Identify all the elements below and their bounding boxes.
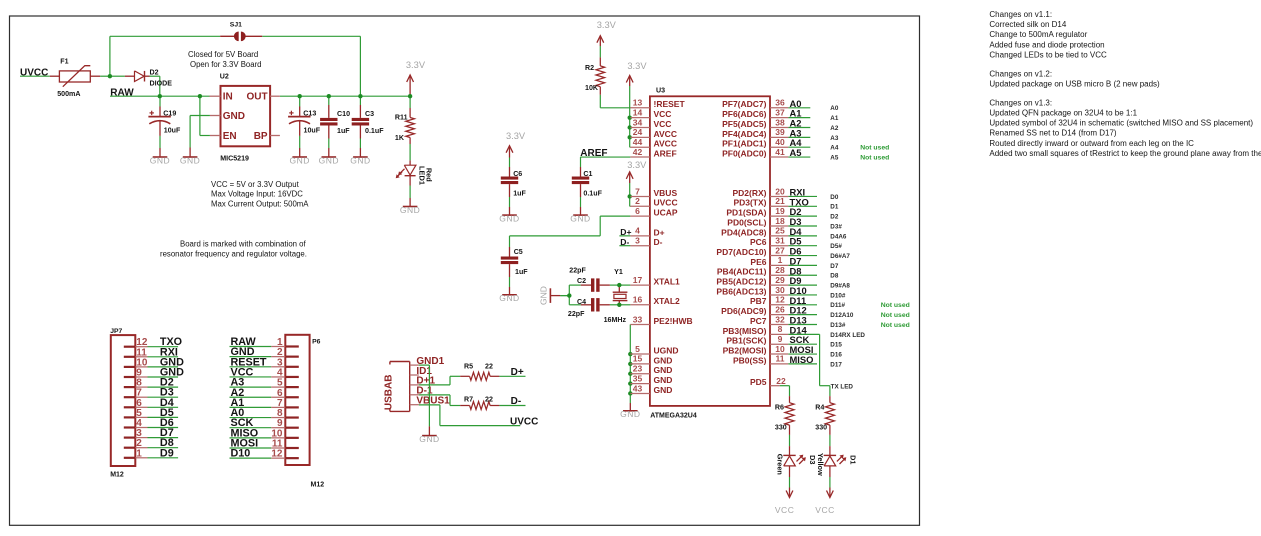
svg-text:10: 10: [775, 344, 785, 354]
svg-text:D-: D-: [511, 396, 522, 407]
svg-text:D15: D15: [830, 342, 842, 349]
resistor R6 330: [775, 396, 794, 435]
ground: [350, 155, 370, 165]
svg-text:Not used: Not used: [881, 322, 910, 329]
junction GND pin row26: [628, 362, 632, 366]
pin 41 PF0(ADC0) net A5 (right): [722, 147, 788, 159]
ground (crystal, rotated): [539, 286, 570, 305]
ground: [499, 293, 519, 303]
pin JP7-7 net D3: [124, 388, 148, 399]
svg-text:BP: BP: [254, 131, 268, 142]
connector X1 USBAB: [384, 356, 450, 412]
svg-text:22: 22: [776, 376, 786, 386]
svg-text:F1: F1: [60, 57, 68, 65]
junction VCC pin34: [628, 125, 632, 129]
svg-text:GND: GND: [620, 409, 640, 419]
wire RXI (JP7): [148, 356, 179, 358]
pin 13 !RESET (left): [630, 98, 685, 110]
wire D4 (JP7): [148, 406, 179, 408]
pin JP7-8 net D2: [124, 378, 148, 389]
wire D3 (JP7): [148, 396, 179, 398]
svg-text:39: 39: [775, 127, 785, 137]
svg-text:Routed directly inward or outw: Routed directly inward or outward from e…: [989, 139, 1194, 148]
wire GND (JP7): [148, 366, 179, 368]
svg-text:GND: GND: [400, 205, 420, 215]
resistor/fuse F1: [50, 57, 100, 98]
svg-text:D5#: D5#: [830, 243, 842, 250]
svg-text:10K: 10K: [585, 84, 599, 92]
svg-text:XTAL1: XTAL1: [654, 277, 681, 287]
svg-text:Not used: Not used: [860, 145, 889, 152]
svg-text:D7: D7: [830, 263, 839, 270]
svg-text:D9#A8: D9#A8: [830, 283, 850, 290]
svg-text:1uF: 1uF: [515, 268, 528, 276]
resistor R4 330: [815, 396, 834, 435]
svg-text:Updated QFN package on 32U4 to: Updated QFN package on 32U4 to be 1:1: [989, 109, 1137, 118]
svg-text:500mA: 500mA: [57, 90, 80, 98]
pin 44 AVCC (left): [630, 137, 677, 149]
svg-text:9: 9: [778, 334, 783, 344]
wire SJ1 left segment: [110, 35, 220, 37]
pin JP7-5 net D5: [124, 408, 148, 419]
wire D9 (JP7): [148, 457, 179, 459]
wire MISO (P6): [230, 437, 272, 439]
svg-text:0.1uF: 0.1uF: [583, 190, 602, 198]
svg-text:13: 13: [633, 98, 643, 108]
svg-text:D2: D2: [150, 68, 159, 76]
svg-text:Board is marked with combinati: Board is marked with combination of: [180, 239, 307, 248]
wire GND (JP7): [148, 376, 179, 378]
wire net SCK: [788, 343, 817, 345]
svg-text:C2: C2: [577, 277, 586, 285]
svg-text:Not used: Not used: [881, 302, 910, 309]
svg-text:43: 43: [633, 383, 643, 393]
svg-text:10uF: 10uF: [164, 127, 181, 135]
svg-text:D10: D10: [231, 448, 251, 460]
svg-text:Corrected silk on D14: Corrected silk on D14: [989, 20, 1066, 29]
svg-text:4: 4: [635, 226, 640, 236]
pin 31 PC6 net D5 (right): [750, 236, 788, 248]
svg-text:20: 20: [775, 186, 785, 196]
wire A3 (P6): [230, 386, 272, 388]
svg-text:R5: R5: [464, 362, 473, 370]
svg-text:Closed for 5V Board: Closed for 5V Board: [188, 50, 258, 59]
wire R2 to !RESET: [599, 95, 601, 108]
svg-text:A0: A0: [830, 105, 839, 112]
svg-text:D0: D0: [830, 194, 839, 201]
wire net RXI: [788, 195, 817, 197]
ground: [570, 213, 590, 223]
ground: [419, 434, 439, 444]
svg-text:PD1(SDA): PD1(SDA): [726, 208, 766, 218]
svg-text:Not used: Not used: [860, 154, 889, 161]
svg-text:TX LED: TX LED: [831, 384, 854, 391]
svg-text:Yellow: Yellow: [816, 453, 825, 476]
pin P6-9 net SCK: [271, 418, 299, 429]
svg-text:M12: M12: [311, 482, 325, 489]
resistor R11 1K: [395, 108, 415, 144]
svg-text:PB0(SS): PB0(SS): [733, 355, 767, 365]
svg-text:Changed LEDs to be tied to VCC: Changed LEDs to be tied to VCC: [989, 50, 1107, 59]
svg-text:24: 24: [633, 127, 643, 137]
pin JP7-6 net D4: [124, 398, 148, 409]
wire UCAP to C5: [600, 215, 630, 217]
wire D5 (JP7): [148, 416, 179, 418]
pin JP7-9 net GND: [124, 368, 148, 379]
svg-text:Red: Red: [424, 168, 433, 182]
svg-text:D8: D8: [830, 273, 839, 280]
svg-text:D13#: D13#: [830, 322, 846, 329]
svg-text:GND: GND: [419, 434, 439, 444]
svg-text:16: 16: [633, 295, 643, 305]
wire net D9: [788, 284, 817, 286]
wire D6 (JP7): [148, 427, 179, 429]
wire net A0: [788, 107, 810, 109]
svg-text:MISO: MISO: [790, 354, 814, 365]
wire 3.3V to R2: [599, 46, 601, 57]
schematic frame border: [10, 16, 920, 525]
wire net A4: [788, 146, 810, 148]
resistor R7 22: [460, 395, 499, 409]
svg-text:Change to 500mA regulator: Change to 500mA regulator: [989, 30, 1087, 39]
wire 3.3V to VBUS/UVCC pins: [629, 183, 631, 206]
svg-text:Max Current Output: 500mA: Max Current Output: 500mA: [211, 199, 309, 208]
svg-text:Max Voltage Input: 16VDC: Max Voltage Input: 16VDC: [211, 190, 303, 199]
svg-text:AVCC: AVCC: [654, 139, 677, 149]
pin P6-11 net MOSI: [271, 439, 299, 450]
ground: [319, 155, 339, 165]
pin 1 PE6 net D7 (right): [750, 255, 788, 267]
wire GND (P6): [230, 356, 272, 358]
capacitor C19 10uF: [148, 96, 181, 136]
svg-text:38: 38: [775, 117, 785, 127]
pin 30 PB6(ADC13) net D10 (right): [716, 285, 788, 297]
svg-text:PB3(MISO): PB3(MISO): [723, 326, 767, 336]
pin D-1: [410, 394, 419, 396]
junction XTAL2/Y1: [617, 303, 621, 307]
svg-text:PD4(ADC8): PD4(ADC8): [721, 227, 767, 237]
svg-text:23: 23: [633, 364, 643, 374]
wire SJ1 down to OUT rail: [359, 36, 361, 96]
svg-text:3: 3: [635, 236, 640, 246]
pin 29 PB5(ADC12) net D9 (right): [716, 275, 788, 287]
wire U2 EN pin to RAW: [200, 135, 210, 137]
svg-text:GND: GND: [570, 213, 590, 223]
wire AREF to pin42: [580, 156, 630, 158]
svg-text:D14RX LED: D14RX LED: [830, 332, 865, 339]
pin 7 VBUS (left): [630, 186, 677, 198]
svg-text:UVCC: UVCC: [510, 417, 538, 428]
junction XTAL1/Y1: [617, 283, 621, 287]
svg-text:UVCC: UVCC: [654, 198, 678, 208]
svg-text:PF1(ADC1): PF1(ADC1): [722, 139, 767, 149]
junction GND pin row27: [628, 372, 632, 376]
svg-text:D6#A7: D6#A7: [830, 253, 850, 260]
pin 40 PF1(ADC1) net A4 (right): [722, 137, 788, 149]
svg-text:PF4(ADC4): PF4(ADC4): [722, 129, 767, 139]
LED LED1 Red: [396, 160, 434, 185]
svg-text:GND: GND: [654, 375, 673, 385]
svg-text:R2: R2: [585, 64, 594, 72]
capacitor C13 10uF: [288, 96, 321, 136]
svg-text:D9: D9: [160, 447, 174, 459]
svg-text:PB4(ADC11): PB4(ADC11): [717, 267, 767, 277]
ground: [180, 155, 200, 165]
svg-text:Updated package on USB micro B: Updated package on USB micro B (2 new pa…: [989, 80, 1160, 89]
wire SCK (P6): [230, 427, 272, 429]
pin 20 PD2(RX) net RXI (right): [732, 186, 788, 198]
svg-text:UGND: UGND: [654, 345, 679, 355]
pin 11 PB0(SS) net MISO (right): [733, 354, 788, 366]
svg-text:VCC: VCC: [654, 109, 672, 119]
svg-text:19: 19: [775, 206, 785, 216]
wire junction to diode anode: [110, 75, 125, 77]
pin 16 XTAL2 (left): [630, 295, 680, 307]
pin JP7-4 net D6: [124, 418, 148, 429]
junction C2/C4/GND: [567, 293, 571, 297]
svg-text:R6: R6: [775, 404, 784, 412]
pin 39 PF4(ADC4) net A3 (right): [722, 127, 788, 139]
pin 3 D- (left): [630, 236, 662, 248]
svg-text:Open for 3.3V Board: Open for 3.3V Board: [190, 60, 262, 69]
wire junction up to SJ1: [109, 36, 111, 76]
wire SJ1 right segment: [262, 35, 360, 37]
svg-text:44: 44: [633, 137, 643, 147]
svg-text:10uF: 10uF: [304, 127, 321, 135]
wire GND1 to ground: [419, 364, 430, 366]
junction GND pin row28: [628, 381, 632, 385]
wire R4 to LED: [829, 435, 831, 446]
svg-text:Added fuse and diode protectio: Added fuse and diode protection: [989, 40, 1104, 49]
svg-text:VCC = 5V or 3.3V Output: VCC = 5V or 3.3V Output: [211, 180, 300, 189]
pin 2 UVCC (left): [630, 196, 677, 208]
svg-text:resonator frequency and regula: resonator frequency and regulator voltag…: [160, 249, 307, 258]
svg-text:GND: GND: [150, 155, 170, 165]
pin JP7-11 net RXI: [124, 347, 148, 358]
ground: [150, 155, 170, 165]
wire XTAL1: [619, 284, 630, 286]
svg-text:IN: IN: [223, 92, 233, 103]
svg-text:D12A10: D12A10: [830, 312, 854, 319]
svg-text:22pF: 22pF: [569, 267, 586, 275]
wire R5 to D+: [499, 375, 525, 377]
svg-text:GND: GND: [319, 155, 339, 165]
pin 8 PB3(MISO) net D14 (right): [723, 324, 789, 336]
wire fuse to junction: [100, 75, 110, 77]
svg-text:PB5(ADC12): PB5(ADC12): [716, 277, 766, 287]
svg-text:R11: R11: [395, 114, 408, 122]
wire net D3: [788, 225, 817, 227]
wire MOSI (P6): [230, 447, 272, 449]
wire D7 (JP7): [148, 437, 179, 439]
svg-text:VCC: VCC: [775, 505, 794, 515]
svg-text:R4: R4: [815, 404, 824, 412]
svg-text:330: 330: [815, 424, 827, 432]
wire net A2: [788, 127, 810, 129]
solder jumper SJ1: [220, 22, 262, 41]
svg-text:PB7: PB7: [750, 296, 767, 306]
svg-text:Renamed SS net to D14 (from D1: Renamed SS net to D14 (from D17): [989, 129, 1117, 138]
svg-text:22pF: 22pF: [568, 310, 585, 318]
svg-text:D4A6: D4A6: [830, 233, 847, 240]
svg-text:11: 11: [776, 354, 785, 364]
pin VBUS1: [410, 404, 419, 406]
pin P6-10 net MISO: [271, 428, 299, 439]
svg-text:D1: D1: [830, 204, 839, 211]
svg-text:1: 1: [778, 255, 783, 265]
wire net MOSI: [788, 353, 817, 355]
svg-text:26: 26: [775, 304, 785, 314]
wire D14 to TX LED: [819, 334, 821, 385]
wire A0 (P6): [230, 417, 272, 419]
svg-text:Y1: Y1: [614, 268, 623, 276]
pin 5 UGND (left): [630, 344, 678, 356]
pin 34 VCC (left): [630, 117, 671, 129]
svg-text:PF0(ADC0): PF0(ADC0): [722, 148, 767, 158]
svg-text:C4: C4: [577, 298, 586, 306]
svg-text:A2: A2: [830, 125, 839, 132]
svg-text:Green: Green: [776, 454, 785, 475]
power VCC: [827, 488, 834, 498]
svg-text:22: 22: [485, 395, 493, 403]
pin 38 PF5(ADC5) net A2 (right): [722, 117, 788, 129]
power 3.3V (VCC pins): [626, 76, 633, 87]
wire net D7: [788, 264, 817, 266]
pin P6-4 net VCC: [271, 367, 299, 378]
svg-text:M12: M12: [110, 472, 124, 479]
capacitor C10 1uF: [320, 96, 350, 138]
pin 27 PD7(ADC10) net D6 (right): [716, 245, 788, 257]
svg-text:1uF: 1uF: [337, 127, 350, 135]
svg-text:41: 41: [775, 147, 785, 157]
svg-text:1uF: 1uF: [513, 190, 526, 198]
svg-text:35: 35: [633, 373, 643, 383]
pin 28 PB4(ADC11) net D8 (right): [717, 265, 788, 277]
wire D8 (JP7): [148, 447, 179, 449]
junction GND pin row25: [628, 352, 632, 356]
wire R11 to LED1: [409, 96, 411, 108]
svg-text:PD0(SCL): PD0(SCL): [727, 217, 766, 227]
svg-text:GND: GND: [290, 155, 310, 165]
pin 4 D+ (left): [630, 226, 664, 238]
note: changelog: [989, 10, 1261, 158]
connector JP7: [110, 328, 135, 478]
svg-text:2: 2: [635, 196, 640, 206]
pin P6-1 net RAW: [271, 337, 299, 348]
svg-text:12: 12: [775, 295, 785, 305]
junction OUT/C3/SJ1: [358, 94, 362, 98]
junction RAW/C19: [158, 94, 162, 98]
svg-text:15: 15: [633, 354, 643, 364]
junction VBUS: [628, 194, 632, 198]
svg-text:7: 7: [635, 186, 640, 196]
connector P6: [285, 335, 324, 489]
svg-text:40: 40: [775, 137, 785, 147]
pin JP7-3 net D7: [124, 428, 148, 439]
pin 32 PC7 net D13 (right): [750, 314, 788, 326]
wire TXO (JP7): [148, 346, 179, 348]
capacitor C3 0.1uF: [352, 96, 384, 138]
diode D2: [125, 68, 172, 87]
wire OUT rail: [280, 95, 410, 97]
svg-text:330: 330: [775, 424, 787, 432]
pin P6-5 net A3: [271, 378, 299, 389]
wire D2 (JP7): [148, 386, 179, 388]
svg-text:PD5: PD5: [750, 377, 767, 387]
svg-text:D+: D+: [511, 367, 524, 378]
wire VCC (P6): [230, 376, 272, 378]
wire LED to VCC: [789, 477, 791, 488]
wire net A1: [788, 117, 810, 119]
svg-text:21: 21: [775, 196, 785, 206]
svg-text:PD6(ADC9): PD6(ADC9): [721, 306, 767, 316]
svg-text:6: 6: [635, 206, 640, 216]
pin P6-6 net A2: [271, 388, 299, 399]
IC U3 ATMEGA32U4: [650, 87, 770, 420]
svg-text:17: 17: [633, 275, 643, 285]
wire diode cathode corner: [150, 75, 160, 77]
svg-text:EN: EN: [223, 131, 237, 142]
svg-text:D11#: D11#: [830, 302, 845, 309]
svg-text:34: 34: [633, 117, 643, 127]
svg-text:D3: D3: [808, 455, 817, 464]
wire C2/C4 left junction: [560, 295, 569, 297]
pin 36 PF7(ADC7) net A0 (right): [722, 98, 788, 110]
pin 22 PD5 (right): [750, 376, 786, 387]
pin 18 PD0(SCL) net D3 (right): [727, 216, 788, 228]
wire net D5: [788, 245, 817, 247]
pin JP7-12 net TXO: [124, 337, 148, 348]
svg-text:PB2(MOSI): PB2(MOSI): [723, 345, 767, 355]
svg-text:UCAP: UCAP: [654, 208, 678, 218]
wire LED to VCC: [829, 477, 831, 488]
svg-text:PD2(RX): PD2(RX): [732, 188, 766, 198]
wire net D6: [788, 255, 817, 257]
svg-text:USBAB: USBAB: [384, 375, 395, 411]
junction OUT/C13: [298, 94, 302, 98]
pin 12 PB7 net D11 (right): [750, 295, 788, 307]
svg-text:GND: GND: [654, 365, 673, 375]
svg-text:RAW: RAW: [110, 87, 134, 98]
wire net TXO: [788, 205, 817, 207]
pin JP7-10 net GND: [124, 357, 148, 368]
pin JP7-1 net D9: [124, 448, 148, 459]
wire net MISO: [788, 363, 817, 365]
pin P6-2 net GND: [271, 347, 299, 358]
svg-text:Changes on v1.2:: Changes on v1.2:: [989, 70, 1052, 79]
svg-text:UVCC: UVCC: [20, 67, 48, 78]
svg-text:3.3V: 3.3V: [627, 61, 647, 71]
regulator U2 MIC5219: [210, 72, 280, 162]
capacitor C6 1uF: [501, 158, 527, 198]
svg-text:22: 22: [485, 362, 493, 370]
ground: [400, 205, 420, 215]
svg-text:D2: D2: [830, 214, 839, 221]
wire C2 to crystal: [610, 284, 619, 286]
wire net A3: [788, 136, 810, 138]
svg-text:3.3V: 3.3V: [506, 131, 526, 141]
svg-text:PC6: PC6: [750, 237, 767, 247]
capacitor C5 1uF: [501, 236, 528, 277]
pin JP7-2 net D8: [124, 438, 148, 449]
pin 24 AVCC (left): [630, 127, 677, 139]
wire R6 to LED: [789, 435, 791, 446]
wire RESET (P6): [230, 366, 272, 368]
svg-text:GND: GND: [654, 385, 673, 395]
svg-text:29: 29: [775, 275, 785, 285]
svg-text:PD3(TX): PD3(TX): [733, 198, 766, 208]
wire RAW rail: [110, 95, 210, 97]
